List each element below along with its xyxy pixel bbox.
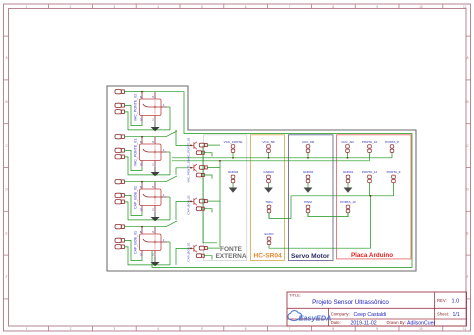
wire conn1 K1 <box>125 91 144 93</box>
label driver4 <box>186 242 190 262</box>
EasyEDA logo <box>288 311 331 323</box>
wire vertical bus x220 <box>219 161 221 247</box>
node GND01 <box>343 170 354 193</box>
svg-text:11: 11 <box>463 5 467 9</box>
wire conn1 K2 <box>125 131 177 137</box>
svg-text:6: 6 <box>245 5 247 9</box>
node VCC_5B <box>262 140 274 158</box>
svg-text:VAC_PONTE_02: VAC_PONTE_02 <box>186 137 190 160</box>
wire driver2 a <box>208 166 221 168</box>
section box Placa Arduino <box>337 135 412 259</box>
junction driver3 <box>190 201 192 203</box>
relay K3 <box>140 182 167 212</box>
relay K4 <box>140 227 167 257</box>
svg-text:F: F <box>467 275 469 279</box>
svg-text:3: 3 <box>113 5 115 9</box>
svg-text:Projeto Sensor Ultrassônico: Projeto Sensor Ultrassônico <box>312 299 389 306</box>
svg-text:GND01: GND01 <box>343 170 354 174</box>
wire conn1 K4 <box>125 221 177 227</box>
transistor Q2 <box>191 164 197 171</box>
wire to driver K2 <box>176 168 191 175</box>
svg-text:TRIG: TRIG <box>265 200 273 204</box>
svg-text:4: 4 <box>157 327 159 331</box>
svg-text:1: 1 <box>26 327 28 331</box>
svg-text:CAP_BOB_01: CAP_BOB_01 <box>133 231 137 254</box>
svg-text:8: 8 <box>332 5 334 9</box>
title text <box>289 293 389 307</box>
svg-text:Placa Arduino: Placa Arduino <box>351 252 393 259</box>
transistor Q4 <box>191 245 197 252</box>
node TRIG <box>265 200 273 218</box>
junction driver1 <box>190 145 192 147</box>
svg-text:VCC_AR: VCC_AR <box>341 140 354 144</box>
ground K1 <box>151 122 160 132</box>
svg-text:Company:: Company: <box>331 312 350 317</box>
node PORTA_10 <box>362 140 378 161</box>
wire boundary bus <box>125 92 412 268</box>
wire PWM to PORTA_12 <box>308 213 348 217</box>
svg-text:CAP_BOB_01: CAP_BOB_01 <box>186 242 190 262</box>
svg-text:AdilsonCuer: AdilsonCuer <box>407 321 436 327</box>
svg-text:6: 6 <box>245 327 247 331</box>
section box FONTE EXTERNA <box>204 135 247 261</box>
wire driver1 a <box>208 144 221 146</box>
svg-text:E: E <box>467 231 469 235</box>
wire conn1 K3 <box>125 176 177 182</box>
svg-text:9: 9 <box>376 327 378 331</box>
wire conn2 K1 <box>125 105 142 125</box>
svg-text:10: 10 <box>419 5 423 9</box>
svg-text:EXTERNA: EXTERNA <box>215 253 246 260</box>
resistor R6 <box>196 207 204 211</box>
wire conn3 K2 <box>125 157 170 175</box>
svg-text:7: 7 <box>289 5 291 9</box>
svg-text:PWM: PWM <box>304 200 312 204</box>
wire driver1 b <box>205 153 213 157</box>
node ECHO <box>265 232 275 245</box>
svg-text:B: B <box>6 100 8 104</box>
svg-text:5: 5 <box>201 5 203 9</box>
wire driver4 a <box>208 247 221 249</box>
label CAP_BOB_01 <box>133 231 137 254</box>
svg-text:VCC_FONTE: VCC_FONTE <box>224 140 243 144</box>
resistor R1 <box>199 143 207 147</box>
svg-text:Servo Motor: Servo Motor <box>291 253 330 260</box>
svg-text:4: 4 <box>157 5 159 9</box>
svg-text:3: 3 <box>113 327 115 331</box>
svg-text:9: 9 <box>376 5 378 9</box>
svg-text:GND03: GND03 <box>263 170 274 174</box>
svg-text:GND02: GND02 <box>303 170 314 174</box>
svg-text:Ceep Castaldi: Ceep Castaldi <box>354 312 387 318</box>
svg-text:PORTA_12: PORTA_12 <box>340 200 356 204</box>
node GND03 <box>263 170 274 193</box>
junction bus dots <box>219 157 371 197</box>
node PORTA_8 <box>385 140 399 158</box>
wire driver4 b <box>205 256 213 260</box>
svg-text:TITLE:: TITLE: <box>289 293 301 298</box>
module boundary outline <box>107 86 416 271</box>
wire conn3 K4 <box>125 247 170 265</box>
label driver3 <box>186 195 190 215</box>
svg-text:EasyEDA: EasyEDA <box>299 314 332 323</box>
label driver1 <box>186 137 190 160</box>
node VCC_AR <box>341 140 354 158</box>
wire conn3 K1 <box>125 112 170 130</box>
connector P1 <box>115 90 124 94</box>
connector P5 <box>115 148 124 152</box>
label VAC_PONTE_02 <box>133 94 137 122</box>
svg-text:VCC_5B: VCC_5B <box>262 140 274 144</box>
node VCC_FONTE <box>224 140 243 158</box>
svg-text:1: 1 <box>26 5 28 9</box>
svg-text:1.0: 1.0 <box>452 299 460 305</box>
svg-text:Drawn By:: Drawn By: <box>387 320 406 325</box>
wire VCC bus H1 <box>172 157 392 159</box>
connector P3 <box>115 110 124 114</box>
connector P2 <box>115 103 124 107</box>
junction K4 <box>141 226 143 228</box>
svg-text:Date:: Date: <box>331 320 341 325</box>
ground K2 <box>151 167 160 177</box>
wire driver3 b <box>205 209 213 213</box>
wire to driver K1 <box>176 130 191 146</box>
label CAP_BOB_02 <box>133 186 137 209</box>
svg-text:5: 5 <box>201 327 203 331</box>
node PORTA_9 <box>387 170 401 183</box>
svg-text:ECHO: ECHO <box>265 232 275 236</box>
junction K2 <box>141 136 143 138</box>
connector P10 <box>115 225 124 229</box>
title block <box>287 292 467 326</box>
relay K1 <box>140 92 167 122</box>
connector P6 <box>115 155 124 159</box>
svg-text:CAP_BOB_02: CAP_BOB_02 <box>186 195 190 215</box>
connector P4 <box>115 135 124 139</box>
wire ECHO to porta branch <box>269 196 371 248</box>
wire relay pin1 loop K2 <box>167 152 171 175</box>
resistor R7 <box>199 246 207 250</box>
node PWM <box>304 200 312 217</box>
svg-text:PORTA_11: PORTA_11 <box>362 170 378 174</box>
connector P9 <box>115 200 124 204</box>
label VAC_PONTE_01 <box>133 139 137 167</box>
svg-text:PORTA_8: PORTA_8 <box>385 140 399 144</box>
svg-text:2: 2 <box>70 327 72 331</box>
wire relay pin1 loop K3 <box>167 197 171 220</box>
wire driver2 b <box>205 175 213 179</box>
ground K4 <box>151 257 160 267</box>
wire PORTA_9 net <box>291 183 394 196</box>
svg-text:8: 8 <box>332 327 334 331</box>
junction driver2 <box>190 167 192 169</box>
resistor R8 <box>196 254 204 258</box>
wire conn2 K4 <box>125 240 142 260</box>
connector P11 <box>115 238 124 242</box>
wire conn2 K2 <box>125 150 142 170</box>
ground K3 <box>151 212 160 222</box>
node VCC_8R <box>302 140 315 158</box>
wire driver3 a <box>208 200 221 202</box>
resistor R3 <box>199 166 207 170</box>
section box HC-SR04 <box>251 135 285 261</box>
svg-text:7: 7 <box>289 327 291 331</box>
connector P12 <box>115 245 124 249</box>
connector P8 <box>115 193 124 197</box>
company cell <box>331 312 386 318</box>
wire to driver K3 <box>176 202 191 220</box>
svg-text:E: E <box>6 231 8 235</box>
svg-text:REV:: REV: <box>437 298 447 303</box>
node PORTA_12 <box>340 200 356 217</box>
wire conn3 K3 <box>125 202 170 220</box>
svg-text:F: F <box>6 275 8 279</box>
svg-text:2019-11-02: 2019-11-02 <box>351 321 377 327</box>
rev cell <box>437 298 459 305</box>
svg-text:PORTA_9: PORTA_9 <box>387 170 401 174</box>
svg-text:2: 2 <box>70 5 72 9</box>
junction K3 <box>141 181 143 183</box>
svg-text:11: 11 <box>463 327 467 331</box>
resistor R5 <box>199 199 207 203</box>
wire PORTA_11 drop <box>369 183 371 196</box>
transistor Q3 <box>191 198 197 205</box>
svg-text:GND04: GND04 <box>228 170 239 174</box>
svg-text:Sheet:: Sheet: <box>437 312 449 317</box>
resistor R2 <box>196 151 204 155</box>
svg-text:B: B <box>467 100 469 104</box>
svg-text:VAC_PONTE_01: VAC_PONTE_01 <box>133 139 137 167</box>
svg-text:1/1: 1/1 <box>453 312 460 318</box>
junction K1 <box>141 91 143 93</box>
wire conn2 K3 <box>125 195 142 215</box>
wire relay pin1 loop K1 <box>167 107 171 130</box>
resistor R4 <box>196 173 204 177</box>
node GND04 <box>228 170 239 193</box>
wire to driver K4 <box>176 249 191 265</box>
node PORTA_11 <box>362 170 378 183</box>
relay K2 <box>140 137 167 167</box>
sheet cell <box>437 312 460 318</box>
svg-text:HC-SR04: HC-SR04 <box>253 253 282 260</box>
wire TRIG net <box>269 196 291 219</box>
svg-text:VAC_PONTE_01: VAC_PONTE_01 <box>186 159 190 182</box>
wire vertical bus x203 <box>203 146 217 243</box>
node GND02 <box>303 170 314 193</box>
label driver2 <box>186 159 190 182</box>
svg-text:PORTA_10: PORTA_10 <box>362 140 378 144</box>
svg-text:VCC_8R: VCC_8R <box>302 140 315 144</box>
svg-text:VAC_PONTE_02: VAC_PONTE_02 <box>133 94 137 122</box>
transistor Q1 <box>191 142 197 149</box>
connector P7 <box>115 180 124 184</box>
junction driver4 <box>190 248 192 250</box>
wire bus H2 <box>172 160 370 162</box>
wire relay pin1 loop K4 <box>167 242 171 265</box>
svg-text:CAP_BOB_02: CAP_BOB_02 <box>133 186 137 209</box>
date cell <box>331 320 436 327</box>
svg-text:10: 10 <box>419 327 423 331</box>
section box Servo Motor <box>289 135 334 261</box>
